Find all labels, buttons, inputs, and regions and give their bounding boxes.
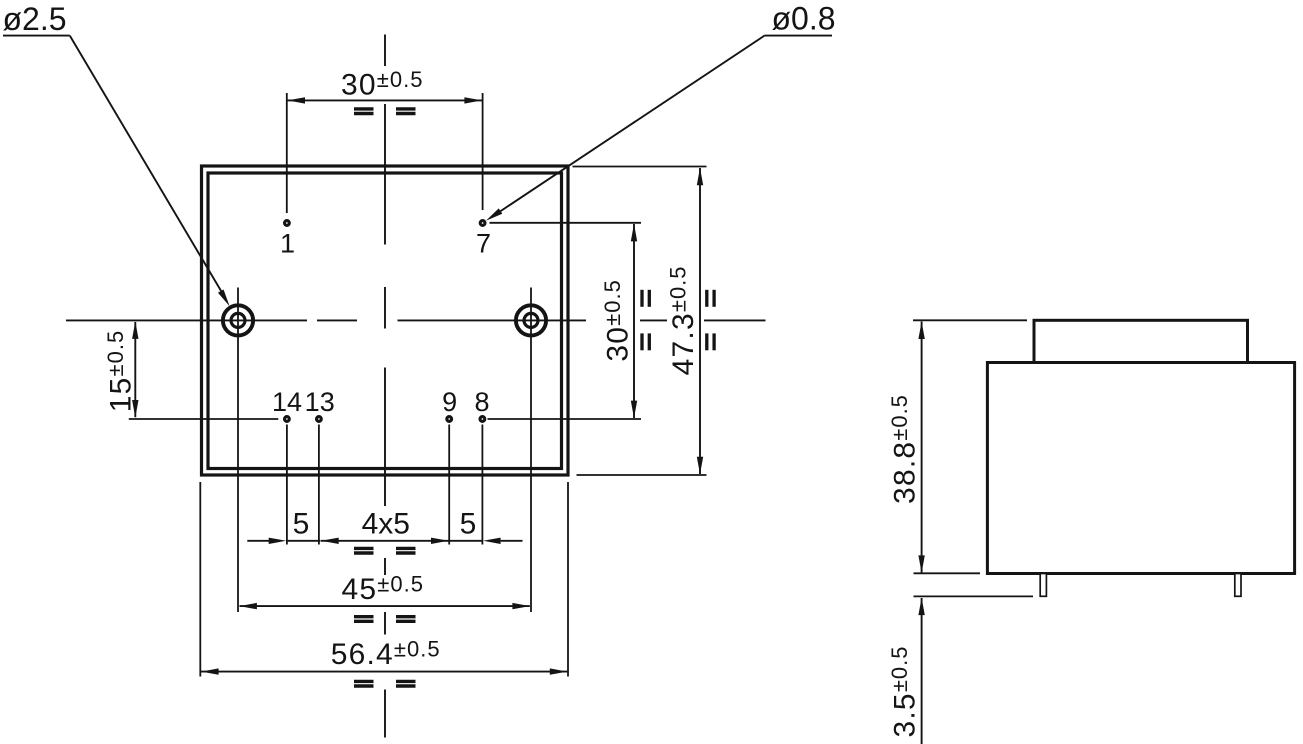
svg-text:14: 14 xyxy=(272,387,302,417)
leader line for hole diameter 2.5 xyxy=(3,36,230,307)
dimension 56.4+-0.5 text xyxy=(331,637,441,672)
leader line for pin diameter 0.8 xyxy=(486,36,832,221)
side view pin (right) xyxy=(1235,574,1241,597)
dimension 56.4+-0.5 line and arrows xyxy=(201,668,567,674)
symmetry marks below top dimension xyxy=(354,109,416,114)
pin 13 label xyxy=(305,387,335,417)
extension lines from bottom pins xyxy=(287,425,483,545)
svg-text:5: 5 xyxy=(293,508,310,541)
dimension 45+-0.5 line and arrows xyxy=(239,603,530,609)
transformer body (side view) xyxy=(987,363,1294,574)
mounting hole M2 (right) xyxy=(516,305,546,335)
vertical centerline xyxy=(384,35,386,738)
symmetry marks for right 30 dimension xyxy=(642,290,649,351)
dimension 3.5+-0.5 line and arrow xyxy=(918,598,924,744)
dimension 30+-0.5 (right) line and arrows xyxy=(631,224,637,418)
dimension 15+-0.5 extension line (pin row left) xyxy=(129,418,278,420)
mounting hole M1 centerline / extension line xyxy=(237,288,239,613)
dimension 4x5 text xyxy=(362,508,410,541)
dimension 15+-0.5 line and arrows xyxy=(132,321,138,417)
dimension 5 text (left) xyxy=(293,508,310,541)
hole diameter label 2.5 xyxy=(3,1,67,37)
mounting hole M1 (left) xyxy=(223,305,253,335)
svg-text:ø2.5: ø2.5 xyxy=(3,1,67,37)
dimension 45+-0.5 text xyxy=(342,572,424,607)
pin 8 label xyxy=(474,387,489,417)
svg-text:1: 1 xyxy=(280,229,295,259)
extension lines from case corners xyxy=(200,482,568,677)
symmetry marks below 4x5 dimension xyxy=(354,548,416,553)
pin 1 pad xyxy=(285,221,290,226)
dimension 5 text (right) xyxy=(460,508,477,541)
symmetry marks below 56.4 dimension xyxy=(354,681,416,686)
dimension 30+-0.5 (top) text xyxy=(341,67,423,102)
dimension 30+-0.5 (right) text xyxy=(600,279,635,361)
dimension 47.3+-0.5 extension lines xyxy=(573,167,707,476)
pin 14 label xyxy=(272,387,302,417)
dimension 3.5+-0.5 text xyxy=(887,646,922,738)
pin 8 pad xyxy=(480,417,485,422)
svg-text:13: 13 xyxy=(305,387,335,417)
pin 9 pad xyxy=(447,417,452,422)
transformer case outline (bottom view, outer) xyxy=(202,166,569,475)
svg-text:4x5: 4x5 xyxy=(362,508,410,541)
svg-text:7: 7 xyxy=(476,229,491,259)
dimension 30+-0.5 (right) extension lines xyxy=(488,223,642,419)
svg-text:5: 5 xyxy=(460,508,477,541)
symmetry marks below 45 dimension xyxy=(354,617,416,622)
transformer case outline (bottom view, inner) xyxy=(208,173,562,469)
mounting hole M2 centerline / extension line xyxy=(530,288,532,613)
transformer bobbin cap (side view) xyxy=(1034,320,1248,362)
symmetry marks for 47.3 dimension xyxy=(707,290,714,351)
pin 7 pad xyxy=(480,221,485,226)
dimension 3.5+-0.5 extension line (pin bottom) xyxy=(914,595,1034,597)
dimension 30+-0.5 (top pin spacing) extension lines xyxy=(287,93,483,213)
dimension 38.8+-0.5 line and arrows xyxy=(918,322,924,573)
pin diameter label 0.8 xyxy=(772,1,836,37)
dimension 47.3+-0.5 line and arrows xyxy=(697,168,703,475)
pin 1 label xyxy=(280,229,295,259)
dimension 15+-0.5 text xyxy=(103,330,138,412)
svg-text:ø0.8: ø0.8 xyxy=(772,1,836,37)
horizontal centerline xyxy=(66,319,766,321)
dimension 38.8+-0.5 extension lines xyxy=(913,320,1027,573)
dimension 30+-0.5 (top) line and arrows xyxy=(288,97,483,103)
pin 14 pad xyxy=(285,417,290,422)
pin 7 label xyxy=(476,229,491,259)
pin 13 pad xyxy=(317,417,322,422)
dimension 47.3+-0.5 text xyxy=(666,265,701,375)
svg-text:9: 9 xyxy=(442,387,457,417)
dimension 38.8+-0.5 text xyxy=(887,394,922,504)
pin 9 label xyxy=(442,387,457,417)
dimension row 5 / 4x5 / 5 lines and arrows xyxy=(247,538,522,544)
svg-text:8: 8 xyxy=(474,387,489,417)
side view pin (left) xyxy=(1040,574,1046,597)
